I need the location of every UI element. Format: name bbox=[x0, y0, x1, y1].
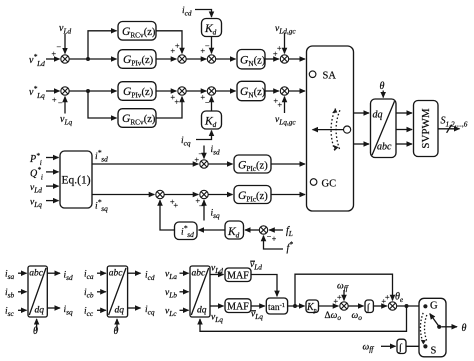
wire omega_ff down into F1 bbox=[343, 290, 345, 300]
summing junction A3 bbox=[207, 55, 215, 63]
wire SVPWM output bbox=[438, 128, 460, 130]
wire i_sq up into D2 bbox=[203, 200, 205, 220]
wire v_Lq into MAF2 bbox=[210, 305, 224, 307]
wire v*_Lq into summer B1 bbox=[46, 90, 60, 92]
wire omega_ff into integrator 2 bbox=[381, 345, 396, 347]
svg-text:isa: isa bbox=[5, 270, 14, 282]
wire D2 to G_PIc2 bbox=[208, 194, 232, 196]
wire i_sd output bbox=[47, 272, 60, 274]
wire G_RCv2 output up into summer B2 bbox=[156, 97, 182, 118]
wire theta into block2 bbox=[116, 319, 118, 331]
svg-text:ωo: ωo bbox=[352, 311, 363, 322]
svg-text:icd: icd bbox=[145, 271, 155, 283]
wire theta feedback from N4 to abc/dq 3 bbox=[200, 306, 407, 331]
block G_PIc(z) row q bbox=[234, 186, 271, 204]
wire F2 to G terminal bbox=[397, 305, 426, 307]
svg-text:icd: icd bbox=[182, 6, 192, 18]
svg-text:θ: θ bbox=[380, 81, 385, 92]
wire v_Lq into Eq bbox=[46, 200, 59, 202]
svg-text:S: S bbox=[431, 346, 437, 357]
block MAF d bbox=[225, 268, 251, 282]
svg-text:−: − bbox=[199, 150, 204, 159]
wire D1 to D2 bbox=[164, 194, 198, 196]
svg-text:vLd,gc: vLd,gc bbox=[275, 24, 296, 36]
svg-text:−: − bbox=[57, 43, 62, 52]
wires dq block to SVPWM bbox=[396, 112, 412, 114]
wire G_N2 to summer B4 bbox=[265, 90, 279, 92]
wire G_N1 to summer A4 bbox=[265, 58, 279, 60]
wire i*_sq to summer D1 bbox=[92, 194, 154, 196]
wire selector to dq block (bottom) bbox=[354, 143, 370, 145]
wire f* up into summer E bbox=[264, 236, 284, 249]
wire switch output theta bbox=[441, 326, 457, 328]
wire E into K_d3 bbox=[245, 229, 259, 231]
svg-text:+: + bbox=[175, 98, 180, 107]
block SVPWM bbox=[414, 101, 439, 157]
wire A3 to G_N1 bbox=[216, 58, 236, 60]
wire F1 to integrator 1 bbox=[348, 305, 363, 307]
wire K_d1 output down into A3 bbox=[211, 37, 213, 54]
wire A4 into selector box bbox=[289, 58, 305, 60]
node N2 bbox=[86, 89, 90, 93]
svg-text:dq: dq bbox=[35, 306, 45, 316]
summing junction F1 bbox=[340, 302, 348, 310]
wire i_cd into K_d1 bbox=[195, 10, 212, 18]
summing junction B2 bbox=[178, 87, 186, 95]
block K_p bbox=[306, 300, 319, 313]
wire MAF2 into tan-1 bbox=[251, 305, 265, 307]
svg-text:isc: isc bbox=[5, 307, 14, 319]
svg-text:dq: dq bbox=[373, 110, 383, 121]
arrowhead down of arc bbox=[334, 145, 339, 150]
wire selector to dq block (top) bbox=[354, 112, 370, 114]
summing junction A2 bbox=[178, 55, 186, 63]
svg-text:MAF: MAF bbox=[227, 302, 249, 313]
selector dotted arc inner bbox=[336, 110, 340, 149]
block G_RCv(z) row1 bbox=[118, 22, 156, 41]
slash on output bus bbox=[447, 125, 452, 133]
block abc/dq transform 2 bbox=[107, 266, 127, 317]
wire N1 up into G_RCv1 bbox=[88, 31, 117, 59]
wire i_cb into abc/dq 2 bbox=[97, 291, 106, 293]
GC terminal circle bbox=[310, 179, 317, 186]
block tan-1 bbox=[266, 298, 287, 314]
block K_d row2 bbox=[202, 111, 222, 129]
wire B3 to G_N2 bbox=[216, 90, 236, 92]
block abc/dq transform 1 bbox=[28, 266, 47, 317]
switch pivot dot bbox=[437, 325, 441, 329]
svg-text:abc: abc bbox=[377, 142, 392, 153]
svg-text:+: + bbox=[272, 235, 277, 244]
wire B1 to node N2 and into G_PIv2 bbox=[69, 90, 116, 92]
svg-text:−: − bbox=[205, 98, 210, 107]
wire integrator 1 to summer F2 bbox=[373, 305, 386, 307]
summing junction B3 bbox=[207, 87, 215, 95]
wire C1 to G_PIc1 bbox=[208, 163, 232, 165]
svg-text:abc: abc bbox=[192, 269, 207, 279]
summing junction B4 bbox=[280, 87, 288, 95]
svg-text:GN(z): GN(z) bbox=[240, 86, 266, 100]
wire B2 to B3 bbox=[186, 90, 206, 92]
svg-text:icb: icb bbox=[84, 288, 94, 300]
wire bypass N3 up over to summer F2 bbox=[295, 274, 393, 306]
svg-text:+: + bbox=[52, 96, 57, 105]
wire B4 into selector box bbox=[289, 90, 305, 92]
svg-text:dq: dq bbox=[197, 306, 207, 316]
block integrator 1 bbox=[365, 300, 373, 313]
wire tan-1 to K_p with node N3 bbox=[288, 305, 305, 307]
wire v_Ldgc down into A4 bbox=[284, 34, 286, 54]
summing junction A1 bbox=[61, 55, 69, 63]
svg-text:−: − bbox=[199, 202, 204, 211]
summing junction D1 bbox=[156, 190, 164, 198]
node N4 bbox=[405, 304, 409, 308]
wire v_La into abc/dq 3 bbox=[180, 272, 189, 274]
svg-text:vLa: vLa bbox=[165, 270, 177, 282]
wire G_RCv1 output down into summer A2 bbox=[156, 31, 182, 54]
wire v_Ld into MAF1 bbox=[210, 274, 224, 276]
SA terminal circle bbox=[309, 71, 316, 78]
summing junction A4 bbox=[280, 55, 288, 63]
wire MAF1 down into tan-1 bbox=[251, 275, 277, 297]
wire f_L into summer E bbox=[269, 229, 283, 231]
svg-text:dq: dq bbox=[115, 306, 125, 316]
block G_N(z) row1 bbox=[237, 50, 265, 69]
wire v_Lqgc up into B4 bbox=[284, 97, 286, 113]
svg-text:vLq: vLq bbox=[30, 198, 42, 210]
selector box bbox=[307, 46, 354, 211]
block K_d row1 bbox=[202, 19, 222, 37]
wire A1 to node N1 and into G_PIv1 bbox=[69, 58, 116, 60]
svg-text:vLd: vLd bbox=[211, 264, 223, 276]
node N3 bbox=[293, 304, 297, 308]
selector wiper line with circle bbox=[313, 129, 344, 131]
wire theta into block1 bbox=[36, 319, 38, 331]
wire G_PIv2 output into summer B2 bbox=[156, 90, 176, 92]
block G_PIv(z) row2 bbox=[118, 82, 156, 101]
arrowhead up of arc bbox=[332, 109, 337, 114]
svg-text:θ: θ bbox=[114, 326, 119, 337]
wire i_cc into abc/dq 2 bbox=[97, 309, 106, 311]
wire K_d3 into i*_sd droop block bbox=[199, 229, 226, 231]
block dq/abc inverse transform bbox=[371, 99, 397, 158]
block abc/dq transform 3 bbox=[190, 266, 210, 317]
wire i_sa into abc/dq 1 bbox=[18, 272, 27, 274]
wire i_cd output bbox=[128, 272, 141, 274]
block G_PIc(z) row d bbox=[234, 155, 271, 173]
wire integrator 2 to S terminal bbox=[406, 345, 425, 347]
svg-text:MAF: MAF bbox=[227, 271, 249, 282]
svg-text:isd: isd bbox=[211, 145, 220, 157]
node N1 bbox=[86, 57, 90, 61]
svg-text:+: + bbox=[278, 101, 283, 110]
svg-text:Δωo: Δωo bbox=[325, 311, 342, 322]
svg-text:ica: ica bbox=[84, 270, 94, 282]
summing junction E bbox=[259, 226, 267, 234]
block integrator 2 bbox=[397, 339, 406, 353]
wire P*_i into Eq bbox=[46, 157, 59, 159]
svg-text:vLq,gc: vLq,gc bbox=[275, 115, 296, 127]
svg-text:Eq.(1): Eq.(1) bbox=[61, 175, 90, 187]
block G_RCv(z) row2 bbox=[118, 109, 156, 128]
svg-text:vLd: vLd bbox=[30, 183, 42, 195]
wire v_Lq up into B1 bbox=[64, 97, 66, 114]
svg-text:+: + bbox=[175, 42, 180, 51]
svg-text:GC: GC bbox=[322, 178, 337, 189]
selector dotted arc upper bbox=[331, 109, 335, 151]
svg-text:ωff: ωff bbox=[337, 282, 349, 293]
svg-text:ωff: ωff bbox=[363, 343, 375, 354]
svg-text:θ: θ bbox=[462, 323, 467, 334]
wire Q*_i into Eq bbox=[46, 171, 59, 173]
svg-text:+: + bbox=[385, 293, 390, 302]
svg-text:−: − bbox=[58, 99, 63, 108]
wire i_sc into abc/dq 1 bbox=[18, 309, 27, 311]
svg-text:GN(z): GN(z) bbox=[240, 54, 266, 68]
wire i_sb into abc/dq 1 bbox=[18, 291, 27, 293]
switch dotted arc inner bbox=[424, 315, 427, 341]
svg-text:+: + bbox=[277, 44, 282, 53]
wire theta into dq block bbox=[382, 91, 384, 98]
svg-text:abc: abc bbox=[29, 269, 44, 279]
wire droop block up into D1 bbox=[160, 200, 175, 230]
block i*_sd droop bbox=[175, 222, 198, 240]
svg-text:vLb: vLb bbox=[165, 288, 177, 300]
svg-text:isq: isq bbox=[64, 305, 73, 317]
svg-text:isq: isq bbox=[211, 209, 220, 221]
wire K_d2 output up into B3 bbox=[211, 97, 213, 111]
block G_N(z) row2 bbox=[237, 81, 265, 100]
wire G_PIv1 output into summer A2 bbox=[156, 58, 176, 60]
summing junction D2 bbox=[200, 190, 208, 198]
svg-text:isb: isb bbox=[5, 288, 14, 300]
switch lever arrow toward G bbox=[430, 314, 439, 327]
svg-text:G: G bbox=[430, 301, 438, 312]
wire v_Ld down into summer A1 bbox=[64, 34, 66, 54]
wire i*_sd to summer C1 bbox=[92, 163, 198, 165]
svg-text:isd: isd bbox=[64, 271, 73, 283]
wire K_p to summer F1 bbox=[319, 305, 339, 307]
wire A2 to A3 bbox=[186, 58, 206, 60]
switch box G/S bbox=[419, 298, 446, 357]
wire N2 down into G_RCv2 bbox=[88, 91, 117, 118]
svg-text:SVPWM: SVPWM bbox=[420, 108, 432, 149]
wire i_sq output bbox=[47, 307, 60, 309]
wire v*_Ld into summer A1 bbox=[46, 58, 60, 60]
svg-text:SA: SA bbox=[323, 70, 337, 81]
block K_d row3 bbox=[225, 221, 244, 239]
block MAF q bbox=[225, 299, 251, 313]
wire i_sd down into C1 bbox=[203, 146, 205, 159]
arrowhead of switch arc at S bbox=[421, 340, 426, 345]
G terminal dot bbox=[423, 304, 427, 308]
block G_PIv(z) row1 bbox=[118, 50, 156, 69]
svg-text:icc: icc bbox=[84, 307, 94, 319]
svg-text:icq: icq bbox=[145, 305, 155, 317]
summing junction C1 bbox=[200, 160, 208, 168]
svg-text:vLc: vLc bbox=[165, 307, 177, 319]
svg-text:vLq: vLq bbox=[211, 313, 223, 325]
block Eq.(1) bbox=[60, 151, 92, 208]
wire G_PIc1 into selector box bbox=[271, 163, 305, 165]
wire v_Lb into abc/dq 3 bbox=[180, 291, 189, 293]
wire i_cq into K_d2 bottom bbox=[196, 131, 212, 140]
svg-text:icq: icq bbox=[181, 136, 191, 148]
wire i_cq output bbox=[128, 307, 141, 309]
wire G_PIc2 into selector box bbox=[271, 194, 305, 196]
wire i_ca into abc/dq 2 bbox=[97, 272, 106, 274]
svg-text:abc: abc bbox=[109, 269, 124, 279]
svg-text:−: − bbox=[205, 42, 210, 51]
wire v_Lc into abc/dq 3 bbox=[180, 309, 189, 311]
summing junction F2 bbox=[388, 302, 396, 310]
svg-text:+: + bbox=[174, 201, 179, 210]
wire v_Ld into Eq bbox=[46, 185, 59, 187]
svg-text:+: + bbox=[337, 293, 342, 302]
summing junction B1 bbox=[61, 87, 69, 95]
switch dotted arc bbox=[420, 313, 423, 342]
S terminal dot bbox=[423, 344, 427, 348]
